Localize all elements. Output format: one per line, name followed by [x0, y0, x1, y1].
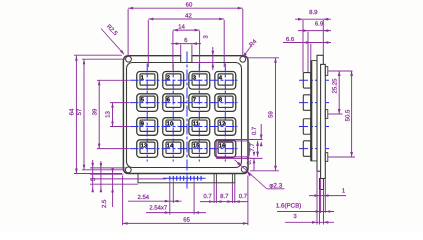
dim 8.9 ext right — [322, 20, 324, 55]
radius R4 leader — [243, 46, 252, 58]
row 4 centerline (front) — [130, 148, 238, 150]
svg-text:1.6(PCB): 1.6(PCB) — [276, 203, 301, 210]
dim 1.6 ext a — [320, 179, 322, 213]
key16 clearance ext top — [216, 139, 262, 141]
svg-text:7.7: 7.7 — [249, 143, 256, 152]
key button 3 — [189, 72, 210, 90]
ext line bottom-left c — [90, 178, 166, 180]
dim 5 line a — [91, 160, 94, 192]
dim 50.5 line — [350, 71, 353, 157]
connector pin hatch — [170, 176, 201, 181]
top edge notch erase — [181, 54, 191, 57]
dim 6 ext right — [191, 45, 193, 56]
key button 4 — [215, 72, 236, 90]
top notch left wall — [180, 55, 182, 63]
svg-text:8.7: 8.7 — [220, 193, 229, 200]
dim 0.7 ext d — [234, 183, 236, 203]
row 2 centerline (front) — [130, 102, 238, 104]
key button 9 — [137, 118, 158, 136]
side view bezel layer — [310, 61, 317, 161]
dim 2.54x7 line — [146, 211, 206, 214]
svg-text:42: 42 — [185, 12, 192, 19]
column 2 centerline — [172, 64, 174, 162]
PCB edge strip below body — [138, 174, 235, 183]
dim 13 line — [111, 103, 114, 127]
row 4 centerline (side view) — [299, 148, 330, 150]
dim 25.25 ext mid — [328, 113, 342, 115]
key button 16 — [215, 140, 236, 158]
svg-text:59: 59 — [268, 111, 275, 118]
svg-text:2.5: 2.5 — [101, 199, 108, 208]
dim 8.9 ext left — [302, 20, 304, 72]
dim 1.6 line — [277, 210, 334, 213]
svg-text:0.7: 0.7 — [251, 126, 258, 135]
dim 7.7 line — [256, 141, 259, 157]
dia 2.3 leader underline — [267, 188, 285, 190]
dim 2.54 line — [128, 200, 182, 203]
column 4 centerline — [224, 64, 226, 162]
dim 0.7 ext c — [231, 183, 233, 203]
key button 6 — [163, 94, 184, 112]
dim 5 line b — [100, 161, 103, 192]
bezel (raised key panel) outline — [127, 63, 242, 168]
dim 39 ext bottom — [97, 148, 129, 150]
dim 0.7/8.7 line — [200, 200, 248, 203]
dim 39 ext top — [97, 79, 129, 81]
dim 25.25 ext top — [328, 70, 352, 72]
dim 1 line — [309, 194, 346, 197]
dim 13 ext bottom — [110, 126, 129, 128]
dim 57 ext bottom — [82, 169, 125, 171]
dim 3 ext — [316, 172, 318, 225]
row 2 centerline (side view) — [299, 102, 330, 104]
key button 1 — [137, 72, 158, 90]
mounting hole bottom-right — [241, 167, 247, 173]
ext line bottom-left b — [90, 173, 123, 175]
dim 2.54 ext a — [169, 181, 171, 214]
dim 2.54x7 ext — [193, 181, 195, 214]
key button 14 — [163, 140, 184, 158]
dim 57 ext top — [82, 58, 125, 60]
svg-text:8.9: 8.9 — [309, 9, 318, 16]
key16 clearance outline — [216, 141, 249, 157]
row 3 centerline (front) — [130, 126, 238, 128]
svg-text:60: 60 — [186, 2, 193, 9]
svg-text:13: 13 — [105, 111, 112, 118]
side view solder bump 1 — [325, 67, 328, 76]
dim 50.5 ext bottom — [328, 156, 355, 158]
svg-text:2.54: 2.54 — [137, 194, 149, 201]
dim 60 ext left — [127, 9, 129, 56]
key button 12 — [215, 118, 236, 136]
dim 57 line — [83, 59, 86, 170]
dim 14 ext left — [172, 31, 174, 69]
dim 60 ext right — [242, 9, 244, 56]
dim 65 line — [123, 222, 248, 225]
side view solder bump 3 — [325, 153, 328, 162]
dim 6.6 ext left — [310, 44, 312, 61]
dim 0.7 ext a — [213, 183, 215, 203]
dim 60 line — [128, 7, 243, 10]
mounting hole top-left — [126, 56, 132, 62]
side view keycap row 3 — [303, 119, 310, 135]
svg-text:2.54x7: 2.54x7 — [149, 205, 168, 212]
dim 59 ext bottom — [250, 170, 279, 172]
key button 11 — [189, 118, 210, 136]
column 3 centerline — [198, 64, 200, 162]
mounting hole bottom-left — [125, 167, 131, 173]
side view connector pin — [320, 179, 324, 190]
row 1 centerline (side view) — [299, 79, 330, 81]
side view solder bump 2 — [325, 110, 328, 119]
dim 59 ext top — [246, 57, 279, 59]
side view keycap row 2 — [303, 95, 310, 111]
mounting hole top-right — [240, 56, 246, 62]
dim 6.6 line — [283, 41, 331, 44]
ext line bottom-left a — [90, 167, 126, 169]
dim 2.5 line — [111, 168, 114, 207]
dim 6.9 line — [298, 29, 331, 32]
svg-text:50.5: 50.5 — [344, 109, 351, 121]
dim 1.6 ext b — [324, 179, 326, 213]
dim 42 line — [148, 18, 224, 21]
key button 5 — [137, 94, 158, 112]
vertical center line — [186, 52, 188, 191]
dim 1 ext a — [319, 190, 321, 224]
row 1 centerline (front) — [130, 79, 238, 81]
dim 2.54 ext b — [172, 181, 174, 203]
dim 59 line — [274, 58, 277, 171]
dim 6.9 ext left — [307, 32, 309, 73]
svg-text:25.25: 25.25 — [331, 78, 338, 94]
keypad body outline (front view) — [123, 56, 248, 174]
dim 65 ext left — [122, 176, 124, 226]
svg-text:39: 39 — [91, 108, 98, 115]
key button 10 — [163, 118, 184, 136]
side view PCB layer — [321, 64, 326, 178]
dim 8.9 line — [295, 18, 331, 21]
side view keycap row 1 — [303, 73, 310, 89]
top notch right wall — [191, 55, 193, 63]
dim 0.7 line (bottom) — [253, 152, 256, 171]
svg-text:57: 57 — [76, 108, 83, 115]
dim 6 ext left — [180, 45, 182, 56]
dim 1 ext b — [323, 190, 325, 224]
dim 39 line — [98, 80, 101, 148]
key button 15 — [189, 140, 210, 158]
dim 13 ext top — [110, 102, 129, 104]
column 1 centerline — [146, 64, 148, 162]
dim 3 line (notch depth) — [212, 47, 215, 70]
key button 7 — [189, 94, 210, 112]
dim 42 ext left — [147, 20, 149, 67]
dim 42 ext right — [223, 20, 225, 67]
row 3 centerline (side view) — [299, 126, 330, 128]
key button 13 — [137, 140, 158, 158]
PCB slot line b — [215, 174, 217, 183]
key button 8 — [215, 94, 236, 112]
side view keycap row 4 — [303, 141, 310, 157]
dim 3 ext — [193, 62, 216, 64]
svg-text:0.7: 0.7 — [203, 193, 212, 200]
dia 2.3 arrows — [237, 162, 252, 177]
connector pin row line — [163, 177, 206, 179]
svg-text:64: 64 — [69, 108, 76, 115]
dim 14 line — [173, 29, 200, 32]
dim 0.7 ext b — [215, 183, 217, 203]
dim 25.25 line — [338, 71, 341, 114]
PCB slot line c — [231, 174, 233, 183]
ext line bottom-left d — [90, 183, 138, 185]
dim 0.7 line (top) — [260, 124, 263, 146]
svg-text:6.6: 6.6 — [286, 36, 295, 43]
svg-text:6.9: 6.9 — [315, 21, 324, 28]
dim 64 ext bottom — [74, 173, 122, 175]
key16 clearance ext bottom — [216, 157, 262, 159]
dim 64 line — [75, 56, 78, 174]
dim 65 ext right — [247, 176, 249, 226]
dim 14 ext right — [199, 31, 201, 69]
svg-text:65: 65 — [183, 217, 190, 224]
svg-text:14: 14 — [178, 24, 185, 31]
key button 2 — [163, 72, 184, 90]
dim 3 line (pin) — [285, 221, 334, 224]
side view panel plate — [317, 55, 323, 171]
svg-text:0.7: 0.7 — [246, 156, 253, 165]
radius R2.5 leader — [101, 29, 124, 55]
dia 2.3 leader diagonal — [235, 160, 267, 189]
svg-text:0.7: 0.7 — [239, 193, 248, 200]
PCB slot line a — [213, 174, 215, 183]
dim 6 line — [171, 42, 201, 45]
svg-text:φ2.3: φ2.3 — [269, 182, 282, 189]
dim 64 ext top — [74, 54, 122, 56]
